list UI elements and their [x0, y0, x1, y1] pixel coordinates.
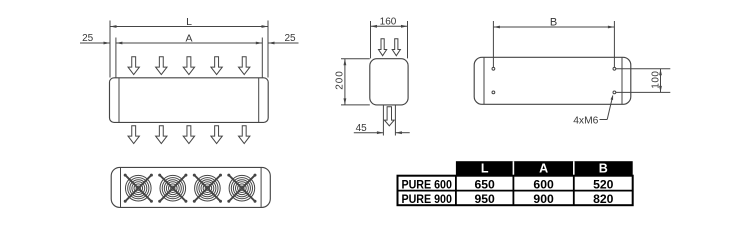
svg-text:25: 25	[82, 33, 94, 44]
svg-text:200: 200	[334, 70, 345, 89]
svg-text:B: B	[599, 162, 608, 176]
svg-text:600: 600	[533, 177, 554, 191]
svg-text:160: 160	[380, 17, 397, 28]
svg-text:4xM6: 4xM6	[573, 115, 598, 126]
svg-text:900: 900	[533, 192, 554, 206]
svg-text:25: 25	[284, 33, 296, 44]
svg-text:A: A	[185, 32, 192, 44]
svg-text:820: 820	[593, 192, 614, 206]
svg-text:100: 100	[650, 71, 661, 89]
svg-text:45: 45	[356, 123, 368, 134]
svg-text:PURE 900: PURE 900	[401, 192, 452, 206]
svg-text:B: B	[550, 16, 557, 28]
svg-text:L: L	[186, 16, 192, 28]
svg-text:L: L	[481, 162, 489, 176]
svg-text:950: 950	[474, 192, 495, 206]
svg-text:520: 520	[593, 177, 614, 191]
svg-text:650: 650	[474, 177, 495, 191]
svg-text:A: A	[539, 162, 548, 176]
svg-text:PURE 600: PURE 600	[401, 177, 452, 191]
